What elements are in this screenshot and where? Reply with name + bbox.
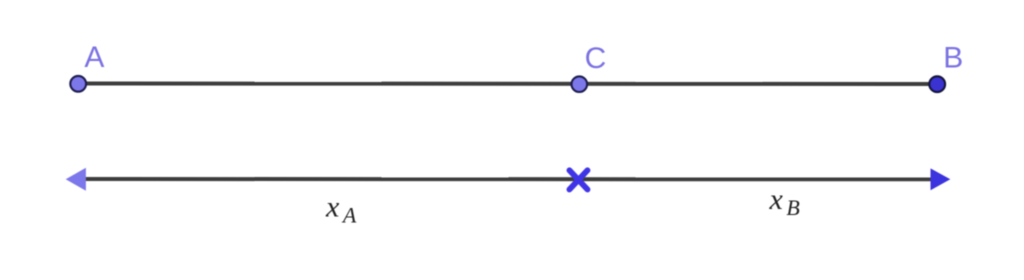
svg-text:C: C — [585, 42, 607, 75]
arrowhead right — [931, 168, 951, 190]
point B — [929, 76, 945, 92]
wire segment lower axis — [74, 177, 942, 181]
svg-text:B: B — [943, 42, 963, 75]
svg-text:A: A — [84, 41, 104, 74]
arrowhead left — [66, 168, 86, 191]
cross mark at C — [569, 170, 587, 189]
wire segment AB (top line) — [78, 82, 937, 87]
point C — [572, 76, 588, 92]
svg-text:xA: xA — [325, 191, 357, 228]
svg-text:xB: xB — [769, 183, 800, 220]
point A — [70, 76, 86, 92]
